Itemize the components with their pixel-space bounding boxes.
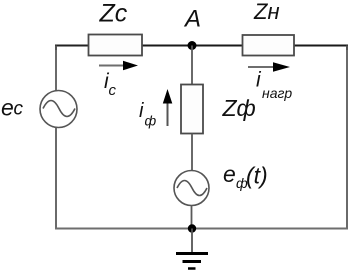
arrow i_ф bbox=[163, 89, 173, 126]
svg-text:Zф: Zф bbox=[222, 95, 256, 121]
svg-text:e: e bbox=[1, 95, 14, 121]
resistor Zф bbox=[181, 85, 203, 134]
svg-text:c: c bbox=[14, 99, 24, 120]
svg-text:(t): (t) bbox=[246, 163, 268, 189]
wire middle vertical (Zф to e_ф source) bbox=[191, 134, 193, 172]
source e_c bbox=[40, 91, 77, 128]
wire top segment right (Zн to right corner) bbox=[293, 46, 347, 51]
wire left vertical upper (corner to e_c source) bbox=[55, 46, 57, 93]
ground stem wire bbox=[191, 229, 193, 254]
wire left vertical lower (e_c source to bottom corner) bbox=[55, 127, 57, 229]
ground bbox=[176, 254, 208, 269]
wire top segment middle (Zc to Zн through node A) bbox=[141, 45, 243, 47]
label i_ф bbox=[139, 100, 157, 129]
arrow i_нагр bbox=[248, 62, 290, 72]
svg-text:c: c bbox=[109, 82, 117, 99]
svg-text:Zc: Zc bbox=[99, 0, 128, 28]
svg-text:нагр: нагр bbox=[262, 85, 292, 101]
svg-text:e: e bbox=[223, 161, 236, 187]
label e_ф(t) bbox=[223, 161, 268, 191]
arrow i_c bbox=[99, 61, 138, 71]
wire top segment left (corner to Zc) bbox=[56, 46, 89, 51]
wire middle vertical (e_ф source to bottom node) bbox=[191, 206, 193, 230]
node A dot bbox=[188, 41, 197, 50]
source e_ф bbox=[174, 171, 209, 206]
label i_нагр bbox=[256, 69, 292, 102]
svg-text:A: A bbox=[183, 6, 201, 33]
wire right vertical bbox=[346, 46, 348, 230]
svg-text:i: i bbox=[139, 100, 144, 122]
svg-text:ф: ф bbox=[145, 113, 157, 129]
svg-text:Zн: Zн bbox=[253, 0, 280, 24]
wire middle vertical (node A to Zф) bbox=[191, 46, 193, 86]
label e_c bbox=[1, 95, 24, 121]
resistor Zc bbox=[89, 35, 143, 56]
label i_c bbox=[104, 70, 117, 99]
resistor Zн bbox=[243, 35, 295, 56]
wire bottom horizontal bbox=[55, 228, 348, 230]
node bottom junction dot bbox=[188, 224, 196, 232]
